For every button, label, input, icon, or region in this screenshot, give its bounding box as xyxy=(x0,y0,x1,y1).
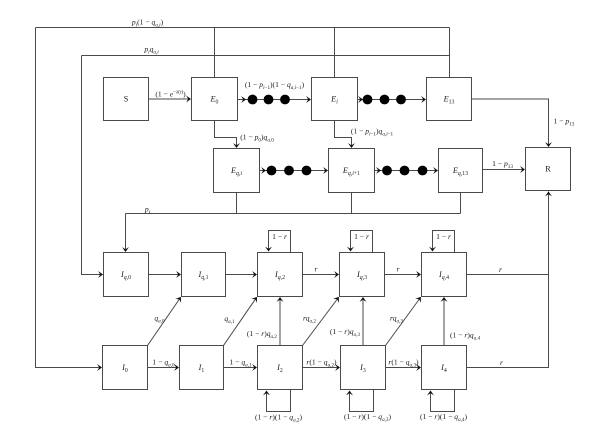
svg-text:1 − r: 1 − r xyxy=(436,232,451,241)
svg-text:r: r xyxy=(500,358,503,367)
svg-text:1 − r: 1 − r xyxy=(354,232,369,241)
svg-text:r: r xyxy=(315,265,318,274)
svg-text:r: r xyxy=(397,265,400,274)
svg-text:r: r xyxy=(499,265,502,274)
svg-text:R: R xyxy=(545,165,551,174)
svg-text:1 − r: 1 − r xyxy=(272,232,287,241)
svg-text:S: S xyxy=(124,95,129,104)
